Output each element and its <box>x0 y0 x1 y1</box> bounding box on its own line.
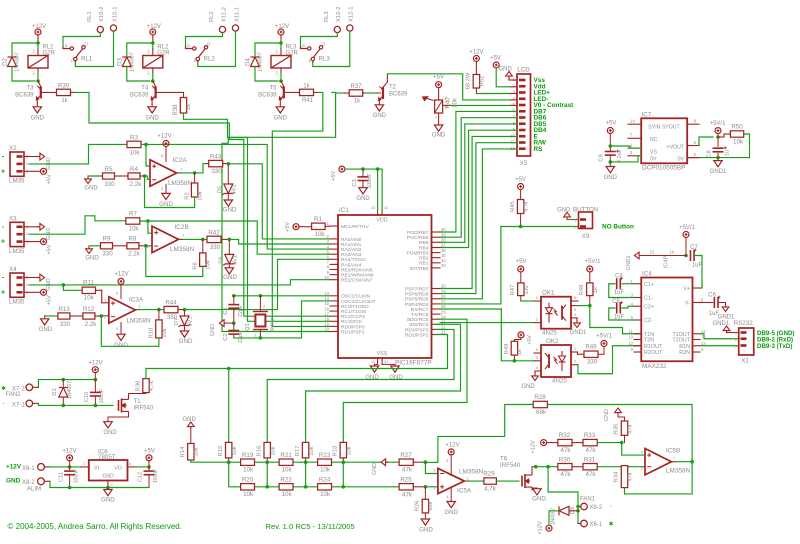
wire LCD bus <box>440 111 517 232</box>
wire <box>233 323 235 330</box>
svg-text:RC0/T1OSO: RC0/T1OSO <box>341 304 369 310</box>
svg-text:4.7k: 4.7k <box>524 201 530 211</box>
transistor T3 BC639 <box>36 86 40 100</box>
svg-text:IRF540: IRF540 <box>134 406 154 412</box>
svg-text:X11-2: X11-2 <box>221 7 227 22</box>
svg-text:LM358N: LM358N <box>666 468 691 475</box>
svg-text:+: + <box>1 239 5 246</box>
wire IC2B out to RA1 <box>231 239 330 244</box>
pin 40 PGD/RB7 of IC1 <box>432 231 441 233</box>
svg-text:68k: 68k <box>536 409 547 416</box>
svg-text:X8-2: X8-2 <box>22 480 35 486</box>
svg-text:C2+: C2+ <box>644 304 654 310</box>
transistor T4 BC639 <box>151 86 155 100</box>
supply +5V at R49 <box>518 332 524 338</box>
resistor R23 10k <box>318 459 332 465</box>
wire <box>609 146 611 152</box>
svg-text:C12: C12 <box>138 472 144 482</box>
wire <box>342 462 344 487</box>
resistor R20 10k <box>241 484 255 490</box>
pin 37 RB4 of IC1 <box>432 247 441 249</box>
svg-text:GND: GND <box>365 375 379 381</box>
svg-text:+12V: +12V <box>6 464 22 471</box>
wire <box>700 302 713 304</box>
svg-text:X2: X2 <box>9 145 17 152</box>
svg-text:+5V: +5V <box>285 222 291 232</box>
svg-text:GND1: GND1 <box>626 256 632 271</box>
node IC3A out / R10 <box>157 308 161 312</box>
wire to +in <box>425 486 438 488</box>
svg-text:RA3/AN3: RA3/AN3 <box>341 252 362 258</box>
supply +5V at R45 <box>518 184 524 190</box>
ground under T2 <box>375 105 383 111</box>
wire <box>342 458 344 462</box>
svg-text:2: 2 <box>512 83 515 88</box>
pad X11-1 <box>232 25 238 31</box>
wire <box>363 92 365 94</box>
resistor R7 10k <box>126 218 140 224</box>
wire <box>233 296 235 304</box>
node IC5B out <box>690 460 694 464</box>
svg-text:RD3/PSP3: RD3/PSP3 <box>405 327 429 333</box>
wire <box>24 170 41 172</box>
svg-text:R33: R33 <box>584 432 596 439</box>
pin 9 R2OUT of IC4 <box>634 351 641 353</box>
wire <box>509 79 517 81</box>
node R34 top <box>623 465 627 469</box>
wire button to X9 pin2 <box>501 226 579 228</box>
wire <box>71 91 76 93</box>
wire <box>227 166 229 185</box>
wire <box>127 43 153 56</box>
svg-text:GND: GND <box>604 409 610 421</box>
svg-text:16: 16 <box>670 250 675 255</box>
wire <box>589 296 591 306</box>
pin 28 PSP5/RD5 of IC1 <box>432 298 441 300</box>
svg-text:R51: R51 <box>480 76 486 87</box>
svg-text:PSP5/RD5: PSP5/RD5 <box>405 297 429 303</box>
wire <box>120 323 122 335</box>
svg-text:15: 15 <box>650 250 655 255</box>
svg-text:+5V/1: +5V/1 <box>710 121 727 127</box>
wire <box>24 156 38 158</box>
optocoupler OK1 4N25 <box>541 297 571 329</box>
svg-text:C1+: C1+ <box>644 282 654 288</box>
svg-text:47k: 47k <box>561 447 572 454</box>
svg-text:C10: C10 <box>84 392 90 402</box>
node R33 / R35 <box>620 441 624 445</box>
optocoupler OK2 4N25 <box>541 345 571 377</box>
svg-text:LM35: LM35 <box>9 299 25 306</box>
ground under R40 <box>434 125 442 131</box>
svg-text:R1N: R1N <box>679 344 690 350</box>
supply +5V/1 at R48 <box>587 266 593 272</box>
svg-text:RD0/PSP0: RD0/PSP0 <box>341 324 365 330</box>
regulator IC6 7805T <box>89 460 128 481</box>
wire <box>69 461 71 467</box>
wire <box>152 43 154 49</box>
ground under D5 <box>224 200 232 206</box>
svg-text:R35: R35 <box>614 424 620 435</box>
svg-text:IC3A: IC3A <box>129 297 144 304</box>
wire <box>69 476 71 488</box>
svg-text:R32: R32 <box>559 432 571 439</box>
wire TX to OK1 pin2 <box>440 322 534 324</box>
svg-text:10k: 10k <box>309 446 315 455</box>
node Q1 top <box>259 294 263 298</box>
svg-text:GND: GND <box>183 417 197 423</box>
svg-text:LM35: LM35 <box>9 248 25 255</box>
svg-text:R5: R5 <box>105 166 113 173</box>
resistor R25 47k <box>399 484 413 490</box>
resistor R1 10k <box>312 223 326 229</box>
wire X3 signal to R7 <box>29 216 126 234</box>
wire R36 to PWM rail <box>146 368 229 370</box>
svg-text:T2N: T2N <box>644 338 654 344</box>
wire <box>70 315 83 317</box>
wire <box>75 31 113 66</box>
svg-text:10k: 10k <box>84 295 95 302</box>
ground under IC2A <box>162 193 170 199</box>
svg-text:R1: R1 <box>314 216 322 223</box>
relay contact RL2 <box>186 46 208 63</box>
pin 24 SDO/RC5 of IC1 <box>432 318 441 320</box>
svg-text:+5V: +5V <box>490 56 501 62</box>
capacitor C9 2.2uF <box>605 152 616 156</box>
wire T2 collector to LCD LED- <box>387 74 510 100</box>
svg-text:RE2/CS#/AN7: RE2/CS#/AN7 <box>341 278 373 284</box>
wire C9 to 0V <box>610 156 641 162</box>
svg-text:+5V/1: +5V/1 <box>596 334 613 340</box>
svg-text:RL3: RL3 <box>319 56 331 63</box>
svg-text:GND: GND <box>39 327 53 333</box>
svg-text:RS232: RS232 <box>734 320 753 327</box>
resistor R18 10k <box>340 442 346 458</box>
wire <box>266 458 268 462</box>
wire C5 to C2- <box>609 308 634 320</box>
supply +5V at X3 <box>41 239 47 245</box>
svg-text:GND: GND <box>31 116 45 122</box>
svg-text:GND: GND <box>114 342 128 349</box>
wire <box>44 480 50 482</box>
ground under IC5A <box>447 502 455 508</box>
wire <box>153 81 156 87</box>
svg-text:C8: C8 <box>707 150 713 157</box>
crystal Q1 4MHz <box>253 312 268 330</box>
svg-text:4.7k: 4.7k <box>149 381 155 391</box>
svg-text:+12V: +12V <box>147 24 161 30</box>
svg-text:IRF540: IRF540 <box>500 462 521 469</box>
svg-text:VO: VO <box>114 466 122 472</box>
wire <box>443 104 451 106</box>
svg-text:S: S <box>187 43 190 48</box>
op-amp IC2B LM358N <box>152 226 179 253</box>
pin 2 of OK2 <box>571 364 578 366</box>
wire IC6 out <box>135 466 149 468</box>
svg-text:100nF: 100nF <box>99 389 105 404</box>
wire <box>148 467 150 470</box>
svg-text:GND: GND <box>389 375 403 381</box>
resistor R30 47k <box>558 464 572 470</box>
capacitor C7 1uF <box>690 250 694 261</box>
ground at X2 pin3 <box>40 153 45 160</box>
svg-text:10k: 10k <box>315 231 326 238</box>
ground GND1 at C6 <box>722 307 729 312</box>
wire X9 pin1 to GND <box>567 219 579 221</box>
wire IC3A feedback <box>101 316 159 346</box>
svg-text:GND: GND <box>179 338 193 345</box>
svg-text:GND: GND <box>557 208 571 214</box>
svg-text:4.7k: 4.7k <box>484 486 497 493</box>
svg-text:68k: 68k <box>428 501 434 510</box>
wire <box>438 113 440 125</box>
wire <box>511 99 518 101</box>
svg-text:R13: R13 <box>58 306 70 313</box>
wire <box>37 68 39 73</box>
pin 7 T2OUT of IC4 <box>693 339 701 341</box>
svg-text:C3: C3 <box>352 179 358 186</box>
wire X7-1 rail <box>38 403 113 405</box>
svg-text:V+: V+ <box>683 286 690 292</box>
wire SDO to ladder R18 <box>343 319 467 442</box>
svg-text:100nF: 100nF <box>367 173 373 189</box>
svg-text:R45: R45 <box>510 201 516 212</box>
svg-text:31: 31 <box>384 359 389 364</box>
svg-text:GND: GND <box>532 496 546 503</box>
pin 26 RX/RC7 of IC1 <box>432 308 441 310</box>
wire <box>572 466 583 468</box>
svg-text:330: 330 <box>60 321 71 328</box>
wire <box>313 31 350 66</box>
svg-text:47k: 47k <box>402 467 413 474</box>
svg-text:VI: VI <box>94 466 99 472</box>
wire ladder lower rail <box>235 486 394 488</box>
svg-text:R38: R38 <box>173 104 179 116</box>
wire <box>194 173 196 183</box>
wire <box>617 415 619 417</box>
resistor R39 1k <box>57 89 71 95</box>
wire <box>671 461 676 463</box>
svg-text:+12V: +12V <box>88 360 102 366</box>
wire R1IN to X1-3 <box>700 345 739 347</box>
node C8 bottom <box>716 156 720 160</box>
supply +5V at IC7 <box>607 128 613 134</box>
svg-text:10k: 10k <box>282 491 293 498</box>
svg-text:R30: R30 <box>559 456 571 463</box>
wire <box>228 265 230 267</box>
svg-text:8: 8 <box>116 292 118 296</box>
svg-text:R22: R22 <box>280 476 292 483</box>
wire R14 to ladder <box>191 460 229 462</box>
relay coil RL3 G2R <box>271 56 291 69</box>
wire <box>511 86 518 88</box>
node C1 / OSC1 <box>232 294 236 298</box>
resistor R32 47k <box>558 439 572 445</box>
mosfet T6 IRF540 <box>522 472 532 490</box>
svg-text:5V1: 5V1 <box>188 317 194 327</box>
wire IC2A out <box>181 164 207 173</box>
svg-text:10k: 10k <box>198 191 204 200</box>
wire +12V to D8 <box>549 511 559 525</box>
node X6-2 <box>576 505 580 509</box>
svg-text:330: 330 <box>104 181 115 188</box>
svg-text:T2OUT: T2OUT <box>672 338 690 344</box>
wire <box>383 82 387 87</box>
svg-text:330: 330 <box>587 359 598 366</box>
node C12 top <box>147 465 151 469</box>
capacitor C12 100nF <box>144 471 155 475</box>
wire <box>464 480 469 482</box>
svg-text:2.2k: 2.2k <box>128 251 141 258</box>
wire <box>221 238 229 240</box>
zener diode D5 5V1 <box>224 184 233 194</box>
ground at R9 <box>86 249 93 254</box>
ground at R13 <box>41 319 49 325</box>
pin 14 of IC7 <box>628 123 641 125</box>
svg-text:330: 330 <box>524 285 530 294</box>
svg-text:R18: R18 <box>333 446 339 457</box>
svg-text:C9: C9 <box>599 154 605 161</box>
svg-text:NO Button: NO Button <box>602 224 634 231</box>
svg-text:330: 330 <box>210 244 221 251</box>
wire <box>717 154 719 158</box>
wire <box>223 163 229 165</box>
ground under IC6 <box>104 490 112 496</box>
pin 8 of IC7 <box>687 123 699 125</box>
pin 2 of IC7 <box>628 155 641 157</box>
svg-text:10k: 10k <box>194 447 200 456</box>
svg-text:X12-2: X12-2 <box>336 7 342 22</box>
wire <box>280 35 282 42</box>
wire <box>314 91 319 93</box>
wire <box>63 33 100 47</box>
relay coil RL1 G2R <box>28 56 48 69</box>
svg-text:GND: GND <box>84 186 98 192</box>
capacitor C4 1uF <box>617 278 621 289</box>
svg-text:C2-: C2- <box>644 318 653 324</box>
svg-text:47k: 47k <box>402 491 413 498</box>
svg-text:X10-2: X10-2 <box>99 7 105 22</box>
wire <box>281 81 284 87</box>
supply +12V at IC2A <box>163 141 169 147</box>
svg-text:GND1: GND1 <box>718 315 735 321</box>
wire <box>233 335 235 338</box>
diode D2 1N4007 <box>8 57 17 67</box>
resistor R44 330 <box>164 306 178 312</box>
svg-text:7805T: 7805T <box>98 454 116 461</box>
ground at R5 <box>85 179 92 184</box>
capacitor C10 100nF <box>90 392 101 396</box>
pin 19 RD0/PSP0 of IC1 <box>330 325 338 327</box>
wire VOUT <box>699 137 713 146</box>
ground under D6 <box>225 268 233 274</box>
wire <box>96 289 102 291</box>
node VDD <box>376 167 380 171</box>
svg-text:RA2/AN2: RA2/AN2 <box>341 247 362 253</box>
wire <box>332 91 336 93</box>
svg-text:+5V: +5V <box>144 448 155 454</box>
node C1 / C2 / GND <box>232 321 236 325</box>
wire <box>362 169 364 176</box>
supply +5V/1 at IC7 out <box>715 128 721 134</box>
svg-text:C5: C5 <box>612 299 620 305</box>
wire button to PSP4 <box>440 227 501 304</box>
wire <box>128 394 130 397</box>
pin 12 R1OUT of IC4 <box>634 345 641 347</box>
wire <box>382 363 395 365</box>
pad X12-1 <box>347 25 353 31</box>
pin 5 of IC7 <box>687 157 699 159</box>
relay contact RL3 <box>301 46 323 63</box>
supply +5V for R40 <box>436 82 442 88</box>
svg-text:10k: 10k <box>320 491 331 498</box>
wire <box>325 225 330 227</box>
wire <box>152 73 154 81</box>
wire <box>37 73 39 81</box>
op-amp IC2A LM358N <box>150 160 177 187</box>
svg-text:X5: X5 <box>520 160 528 167</box>
svg-text:IC7: IC7 <box>642 111 652 118</box>
wire X7-2 rail <box>38 380 95 388</box>
svg-text:GND: GND <box>444 509 458 516</box>
svg-text:12: 12 <box>371 359 376 364</box>
node C10 top <box>94 378 98 382</box>
node ladder 1 <box>265 460 269 464</box>
svg-text:+5V: +5V <box>47 174 53 184</box>
svg-text:BC639: BC639 <box>15 92 34 98</box>
svg-text:C1: C1 <box>223 307 229 314</box>
svg-text:R25: R25 <box>400 476 412 483</box>
supply +12V at IC5A <box>448 449 454 455</box>
wire OSC1 <box>234 295 330 297</box>
svg-text:R31: R31 <box>584 456 596 463</box>
pin 6 V- of IC4 <box>693 302 701 304</box>
node D8 <box>576 509 580 513</box>
svg-text:R26: R26 <box>415 501 421 512</box>
wire <box>375 363 378 365</box>
wire <box>685 238 687 256</box>
wire <box>362 182 364 188</box>
svg-text:RA1/AN1: RA1/AN1 <box>341 242 362 248</box>
svg-text:V-: V- <box>685 301 690 307</box>
svg-text:R48: R48 <box>579 285 585 296</box>
pin 9 RE1/WR#/AN6 of IC1 <box>330 274 338 276</box>
wire X3 raw to RA3 <box>148 221 330 254</box>
svg-text:11: 11 <box>629 329 634 334</box>
wire <box>44 316 46 319</box>
wire R37 to RD1 <box>222 92 336 331</box>
supply +5V at R1 <box>293 224 299 230</box>
wire <box>44 466 50 468</box>
wire <box>87 176 89 178</box>
svg-text:R14: R14 <box>180 446 186 457</box>
wire <box>184 311 186 316</box>
svg-text:RC3/SCK: RC3/SCK <box>341 319 363 325</box>
resistor R47 330 <box>518 283 524 296</box>
wire LCD bus <box>440 118 517 238</box>
svg-text:R42: R42 <box>208 229 220 236</box>
svg-text:C4: C4 <box>615 274 623 280</box>
resistor R6 10k <box>200 253 206 267</box>
wire RD3 to ladder R16 <box>267 329 454 442</box>
svg-text:+5V: +5V <box>331 171 337 181</box>
wire <box>622 283 634 285</box>
svg-text:10k: 10k <box>130 149 141 156</box>
wire <box>152 35 154 42</box>
svg-text:+5V: +5V <box>516 259 527 265</box>
svg-text:R15: R15 <box>218 446 224 457</box>
wire <box>531 488 533 490</box>
